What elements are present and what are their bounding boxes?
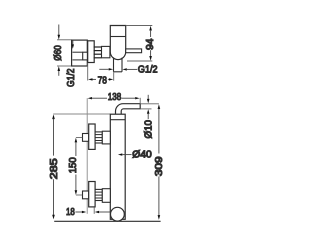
wall flange (escutcheon, side view) [72, 40, 88, 66]
svg-text:94: 94 [145, 38, 156, 50]
spout pipe (curved outlet) [116, 104, 141, 115]
bottom bracket: connector [102, 189, 110, 203]
top bracket: connector [102, 131, 110, 144]
knob circle at bottom [111, 207, 125, 221]
flange inner arrow mark [72, 40, 74, 45]
dimension 18 [93, 207, 95, 214]
union pipe lines inside flange [73, 51, 83, 53]
dimension 94 line and arrows [149, 26, 152, 31]
svg-text:G1/2: G1/2 [66, 68, 77, 87]
baseline [54, 220, 160, 222]
G1/2 outlet left arrow (pointing right) [99, 68, 108, 70]
dimension 94 top extension [126, 25, 153, 27]
body connector [102, 46, 110, 57]
dimension 78 right extension [113, 72, 115, 81]
svg-text:78: 78 [98, 76, 108, 87]
dimension 309 line [158, 104, 161, 109]
dimension 150 bottom [75, 175, 77, 191]
dimension Ø10 top arrow [147, 95, 149, 100]
dimension 94 bottom extension [127, 60, 152, 62]
G1/2 outlet right arrow (pointing left) [122, 68, 126, 70]
union inner box [83, 52, 88, 60]
dimension Ø60 top arrow [58, 25, 60, 36]
spout end extension up (138) [139, 98, 141, 104]
wall line [86, 98, 88, 214]
extension line spout top (309 / Ø10) [140, 103, 159, 105]
extension line spout bottom (Ø10) [140, 108, 151, 110]
dimension 285 line [52, 114, 55, 119]
dimension 150 top [76, 137, 82, 139]
lever handle [126, 49, 142, 53]
dimension Ø10 bottom arrow [147, 109, 150, 114]
dimension 78 left extension [87, 63, 89, 81]
svg-text:Ø10: Ø10 [143, 120, 154, 139]
dimension 138 [88, 97, 92, 99]
cartridge line [110, 36, 125, 38]
svg-text:138: 138 [108, 92, 122, 103]
extension line flange bottom (to Ø60) [57, 65, 72, 67]
svg-text:150: 150 [68, 157, 79, 173]
bottom bracket: flange plate [89, 182, 95, 207]
svg-text:285: 285 [49, 158, 60, 180]
body cap line [110, 119, 125, 121]
svg-text:309: 309 [154, 156, 165, 177]
outlet stub [113, 57, 115, 71]
threaded nipple [94, 47, 102, 58]
union nut [88, 41, 95, 63]
dimension Ø60 bottom arrow [58, 71, 60, 76]
bottom bracket: nut [95, 189, 102, 200]
svg-text:G1/2: G1/2 [138, 65, 158, 76]
svg-text:Ø60: Ø60 [53, 45, 64, 61]
top bracket: wall stub [83, 134, 89, 142]
svg-text:18: 18 [66, 207, 75, 218]
body column (front/large view) [110, 114, 125, 219]
top bracket: flange plate [89, 124, 95, 149]
extension line body top (285) [53, 113, 110, 115]
mixer body (top view) [110, 26, 125, 60]
bottom bracket: wall stub [83, 191, 89, 199]
top bracket: nut [95, 132, 102, 143]
svg-text:Ø40: Ø40 [132, 149, 152, 160]
dimension 78 arrows [88, 78, 92, 80]
dimension Ø40 leader [118, 153, 122, 155]
extension line flange top (to Ø60) [57, 39, 72, 41]
